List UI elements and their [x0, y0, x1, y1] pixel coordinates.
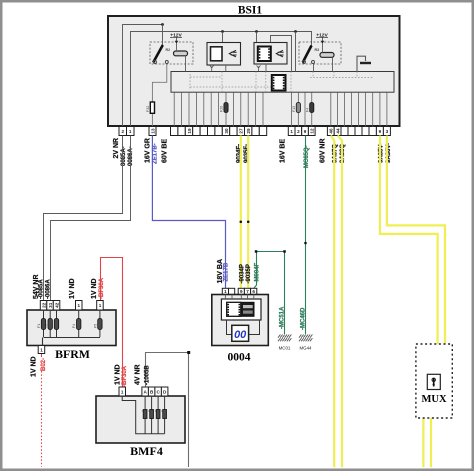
U1 sensor mark: [210, 65, 214, 71]
splice node 9035F: [247, 221, 250, 224]
fuse F20 on pin 30 wire: [225, 92, 227, 126]
R3 coil: [320, 53, 334, 58]
svg-text:0085A-: 0085A-: [121, 146, 127, 166]
0004 wires pins to module: [225, 295, 253, 300]
BSI1 pin 19: [185, 127, 192, 136]
wire MUX output 2 to bottom (yellow): [430, 418, 432, 467]
svg-text:-0086A: -0086A: [45, 279, 51, 299]
svg-text:-BF30A: -BF30A: [122, 365, 128, 387]
svg-text:-MC46D: -MC46D: [300, 307, 306, 330]
wire 9A38Q BSI1 pin44 to bottom of page (yellow): [338, 136, 342, 468]
wire ZE17B BSI1 pin13 to 0004 pin1 (blue): [152, 136, 225, 289]
svg-text:60V BE: 60V BE: [162, 139, 169, 163]
0004 odometer link wires: [227, 320, 260, 335]
module U2 (electronic box with IC): [254, 43, 287, 65]
IC chip inside bus box: [272, 75, 286, 91]
BMF4 box: [96, 396, 185, 443]
BFRM box: [27, 310, 116, 346]
fuse F13 on 16V BE pin 2 wire: [297, 92, 299, 126]
BSI1 pin 3: [383, 127, 390, 136]
splice node 1005B: [187, 351, 190, 354]
BFRM pin 1 (1V ND a): [76, 301, 83, 311]
ground MG44: [299, 335, 312, 351]
wire R2 switch output to fuse F32 and pin 13: [152, 64, 166, 127]
svg-text:1: 1: [224, 289, 227, 294]
BSI1 pin 2: [119, 127, 127, 136]
wire 9035F BSI1 pin29 to 0004 pin7 (yellow): [247, 136, 249, 289]
svg-text:-MC51A: -MC51A: [280, 306, 286, 329]
BFRM fuse F5: [99, 310, 101, 337]
BMF4 pin 1: [119, 387, 126, 396]
BSI1 internal bus box: [171, 72, 394, 93]
svg-text:BMF4: BMF4: [130, 444, 163, 458]
svg-text:60V NR: 60V NR: [320, 138, 327, 163]
svg-text:-9034P: -9034P: [240, 264, 246, 283]
svg-text:R3: R3: [315, 48, 320, 52]
0004 CPU chip: [227, 302, 241, 316]
BSI1 pin (nc): [355, 127, 362, 136]
svg-text:16V BE: 16V BE: [279, 139, 286, 163]
node: drop to box U2: [255, 30, 258, 33]
BSI1 control unit box: [108, 16, 400, 126]
node: junction R2 top: [161, 23, 164, 26]
BSI1 pin 30: [222, 127, 229, 136]
wire 1005B BMF4 pinA to bottom of page: [146, 353, 189, 468]
BMF4 pin C: [155, 387, 162, 396]
internal ground symbol: [357, 56, 371, 71]
wire +12V to R2 coil: [176, 43, 178, 51]
svg-text:7: 7: [246, 289, 249, 294]
wire 9A35V BSI1 60V NR pin9 to MUX (yellow): [380, 136, 438, 346]
BFRM fuse F2: [49, 310, 51, 337]
svg-text:1V ND: 1V ND: [115, 364, 122, 385]
BMF4 diode D3: [157, 396, 159, 434]
wire to R2 switch top: [162, 25, 164, 46]
BMF4 pin A: [142, 387, 149, 396]
BMF4 pin D: [161, 387, 168, 396]
BFRM fuse F4: [78, 310, 80, 337]
svg-text:0086A-: 0086A-: [128, 146, 134, 166]
wire U2 bottom to bus: [265, 64, 267, 72]
module U1 (electronic box with control symbol): [207, 43, 241, 66]
+12V supply arrow (R3 coil): [316, 32, 329, 43]
BSI1 pin (nc): [178, 127, 185, 136]
svg-text:1: 1: [99, 303, 102, 308]
node: drop to box U1: [221, 30, 224, 33]
svg-text:3: 3: [386, 129, 389, 134]
svg-text:4V NR: 4V NR: [135, 364, 142, 385]
svg-text:2: 2: [297, 129, 300, 134]
svg-text:BSI1: BSI1: [238, 5, 263, 17]
svg-text:1V ND: 1V ND: [69, 278, 76, 299]
BMF4 diode D4: [164, 396, 166, 434]
svg-text:F1: F1: [37, 324, 41, 328]
ground MC01: [278, 335, 291, 351]
BSI1 pin (nc): [259, 127, 266, 136]
BSI1 pin (nc): [193, 127, 200, 136]
svg-text:19: 19: [187, 128, 192, 134]
svg-text:0004: 0004: [228, 352, 251, 364]
svg-text:00: 00: [234, 329, 247, 341]
BFRM fuse F3: [56, 310, 58, 337]
+12V supply arrow (R2 coil): [170, 32, 183, 43]
wire U1 top feed: [222, 32, 224, 43]
0004 odometer box 00: [232, 325, 249, 341]
BSI1 internal dashed routing: [190, 72, 374, 93]
BSI1 pin 1: [127, 127, 135, 136]
svg-text:30: 30: [224, 128, 229, 134]
wire MC85Q / MC46D BSI1 16V BE pin9 down to ground MG44 (green): [305, 136, 307, 335]
svg-text:MG44: MG44: [300, 346, 313, 351]
splice node on MC85Q/MC46D wire: [304, 242, 307, 245]
BSI1 pin 27: [237, 127, 244, 136]
wire 0085A inside BSI1: pin 2 up to relay R2 switch: [123, 25, 163, 127]
svg-text:9: 9: [240, 289, 243, 294]
svg-text:F2: F2: [44, 324, 48, 328]
BFRM fuse F1: [43, 310, 45, 337]
svg-text:ZE17B-: ZE17B-: [152, 143, 158, 164]
0004 LCD display block: [242, 302, 254, 316]
wire R2 coil to bus: [185, 56, 187, 72]
BSI1 pin (nc): [215, 127, 222, 136]
svg-text:1: 1: [40, 347, 43, 352]
BFRM bottom pin 1: [38, 346, 45, 354]
svg-text:F5: F5: [93, 324, 97, 328]
svg-text:BFRM: BFRM: [55, 347, 90, 361]
svg-text:-1005B: -1005B: [144, 365, 150, 385]
wire U2 top feed: [256, 32, 258, 43]
svg-text:MUX: MUX: [421, 394, 446, 405]
BMF4 pin B: [148, 387, 155, 396]
BSI1 pin 12: [308, 127, 315, 136]
BSI1 pin (nc): [200, 127, 207, 136]
fuse F32 (supply to pin 13): [150, 102, 154, 113]
svg-text:1: 1: [129, 129, 132, 134]
svg-text:-M004F: -M004F: [254, 262, 260, 283]
BSI1 pin (nc): [230, 127, 237, 136]
BSI1 pin 1: [288, 127, 295, 136]
BSI1 pin 9: [302, 127, 309, 136]
BSI1 pin 46: [327, 127, 334, 136]
wire 0086A BSI1 pin1 to BFRM pin31: [51, 136, 131, 301]
svg-text:F32: F32: [146, 106, 150, 112]
relay R3: [299, 42, 341, 64]
wire BF30A BFRM 1V ND pin1 loop to BMF4 pin1 (red): [101, 258, 123, 388]
0004 pin 9: [238, 288, 244, 294]
svg-text:12: 12: [310, 128, 315, 134]
relay R2: [150, 42, 193, 64]
BFRM internal supply bus: [43, 338, 101, 346]
BSI1 pin (nc): [369, 127, 376, 136]
svg-text:1: 1: [290, 129, 293, 134]
MUX connector icon: [427, 374, 440, 389]
0004 pin 1: [222, 288, 228, 294]
svg-text:F4: F4: [72, 324, 76, 328]
wire R3 feed down to bus: [295, 32, 297, 72]
wire U1 bottom to bus: [225, 65, 227, 72]
BFRM pin 22: [40, 301, 47, 311]
svg-text:F3: F3: [50, 324, 54, 328]
BSI1 pin (nc): [252, 127, 259, 136]
BMF4 diode D2: [151, 396, 153, 434]
wire 9A36V BSI1 60V NR pin3 to MUX (yellow): [387, 136, 445, 346]
svg-text:MC01: MC01: [279, 346, 291, 351]
BSI1 pin (nc): [208, 127, 215, 136]
svg-text:1: 1: [78, 303, 81, 308]
0004 pin 7: [244, 288, 250, 294]
BSI1 pin 44: [334, 127, 341, 136]
svg-text:31: 31: [48, 302, 53, 308]
MUX box (dashed): [416, 344, 452, 418]
svg-text:42: 42: [54, 302, 59, 308]
wire 9034F BSI1 pin27 to 0004 pin9 (yellow): [240, 136, 242, 289]
splice node 9034F: [240, 221, 243, 224]
svg-text:R2: R2: [166, 48, 171, 52]
svg-text:-ZE17B: -ZE17B: [224, 262, 230, 283]
wire R3 switch output to bus: [313, 64, 315, 72]
svg-text:-BF30A: -BF30A: [99, 277, 105, 299]
svg-text:44: 44: [335, 128, 340, 134]
svg-text:2V NR: 2V NR: [113, 138, 120, 159]
wire 0086A inside BSI1: pin 1 up across to relay R3: [131, 32, 312, 127]
wire hook from U2 top around to bus: [271, 36, 292, 72]
wire M004F 0004 pin6 to ground MC01 via MC51A (green): [254, 252, 285, 335]
BSI1 pin 29: [245, 127, 252, 136]
svg-text:-9035P: -9035P: [246, 264, 252, 283]
wire B02 BFRM bottom pin (red, off-page dotted): [41, 354, 43, 358]
BSI1 pin (nc): [362, 127, 369, 136]
svg-text:9: 9: [304, 129, 307, 134]
svg-text:27: 27: [239, 128, 244, 134]
svg-text:F20: F20: [220, 106, 224, 112]
fuse F4 on 16V BE pin 12 wire: [311, 92, 313, 126]
splice node M004F: [255, 250, 257, 253]
svg-text:1: 1: [121, 389, 124, 394]
svg-text:9: 9: [379, 129, 382, 134]
0004 pin (nc): [229, 288, 235, 294]
0004 inner display module: [221, 299, 261, 320]
svg-text:16V GR: 16V GR: [145, 138, 152, 163]
BFRM pin 1 (1V ND b): [97, 301, 104, 311]
BFRM pin 31: [47, 301, 54, 311]
svg-text:B02-: B02-: [41, 358, 47, 371]
BMF4 internal bus from pin 1: [122, 396, 164, 434]
0004 instrument cluster box: [212, 295, 268, 346]
splice node MC51A corner: [283, 250, 286, 253]
svg-text:F4: F4: [305, 108, 309, 112]
BFRM pin 42: [53, 301, 60, 311]
BSI1 pin (nc): [171, 127, 178, 136]
BSI1 pin 9: [376, 127, 383, 136]
svg-text:46: 46: [329, 128, 334, 134]
wire MUX output 1 to bottom (yellow): [422, 418, 424, 467]
svg-text:13: 13: [150, 128, 155, 134]
wires from internal bus to connector pins: [174, 92, 387, 126]
BSI1 pin (nc): [348, 127, 355, 136]
wire +12V to R3 coil: [322, 43, 324, 53]
svg-text:22: 22: [41, 302, 46, 308]
U2 sensor mark: [257, 65, 261, 71]
node: drop to bus at R3: [294, 30, 297, 33]
wire R3 coil to bus: [332, 57, 334, 71]
BSI1 pin 13: [149, 127, 156, 136]
svg-text:6: 6: [252, 289, 255, 294]
svg-text:-0085A: -0085A: [39, 279, 45, 299]
0004 pin 6: [251, 288, 257, 294]
svg-text:29: 29: [246, 128, 251, 134]
BMF4 diode D1: [144, 396, 146, 434]
svg-text:1V ND: 1V ND: [91, 278, 98, 299]
R2 coil: [174, 51, 188, 56]
wire 0085A BSI1 pin2 to BFRM pin22: [44, 136, 123, 301]
wire 9A37Q BSI1 pin46 to bottom of page (yellow): [331, 136, 334, 468]
svg-text:1V ND: 1V ND: [30, 356, 37, 377]
svg-text:2: 2: [122, 129, 125, 134]
BSI1 pin 2: [295, 127, 302, 136]
BSI1 pin (nc): [341, 127, 348, 136]
svg-text:F13: F13: [292, 106, 296, 112]
